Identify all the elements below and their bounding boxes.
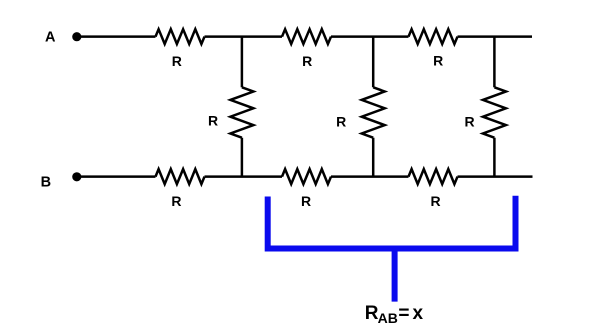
- svg-text:R: R: [430, 193, 440, 209]
- wire A to R1 top: [79, 35, 156, 38]
- wire vertical junction 2 lower lead: [372, 138, 375, 177]
- wire vertical junction 2 upper lead: [372, 37, 375, 88]
- resistor R (vertical, middle shunt): [362, 87, 385, 137]
- node A terminal dot: [72, 32, 81, 41]
- resistor R (bottom-right, horizontal): [409, 169, 458, 184]
- measurement bracket stem: [392, 252, 398, 302]
- wire top right end: [458, 35, 533, 38]
- svg-text:R: R: [301, 193, 311, 209]
- resistor R (vertical, left shunt): [230, 87, 253, 137]
- svg-text:R: R: [433, 52, 443, 68]
- node B terminal dot: [72, 172, 81, 181]
- wire vertical junction 3 lower lead: [493, 138, 496, 177]
- resistor R (top-left, horizontal): [156, 29, 205, 44]
- resistor R (top-right, horizontal): [409, 29, 458, 44]
- wire top between R1 and R2: [205, 35, 283, 38]
- svg-text:R: R: [465, 114, 475, 130]
- wire top between R2 and R3: [331, 35, 409, 38]
- resistor R (vertical, right shunt): [483, 87, 506, 137]
- label RAB = x: [365, 303, 424, 326]
- resistor R (bottom-middle, horizontal): [282, 169, 331, 184]
- measurement bracket (blue): [268, 196, 516, 302]
- resistor R (bottom-left, horizontal): [156, 169, 205, 184]
- wire B to R4 bottom: [79, 175, 156, 178]
- wire bottom between R4 and R5: [205, 175, 283, 178]
- svg-text:A: A: [45, 29, 56, 45]
- wire vertical junction 3 upper lead: [493, 37, 496, 88]
- svg-text:R: R: [302, 53, 312, 69]
- svg-text:x: x: [413, 303, 424, 324]
- wire bottom between R5 and R6: [331, 175, 409, 178]
- svg-text:R: R: [336, 113, 346, 129]
- svg-text:AB: AB: [378, 310, 398, 326]
- wire vertical junction 1 upper lead: [241, 37, 244, 88]
- svg-text:R: R: [171, 193, 181, 209]
- wire bottom right end: [458, 175, 533, 178]
- svg-text:R: R: [208, 113, 218, 129]
- svg-text:R: R: [172, 53, 182, 69]
- resistor R (top-middle, horizontal): [282, 29, 331, 44]
- svg-text:B: B: [41, 174, 51, 190]
- wire vertical junction 1 lower lead: [241, 138, 244, 177]
- svg-text:=: =: [398, 303, 409, 324]
